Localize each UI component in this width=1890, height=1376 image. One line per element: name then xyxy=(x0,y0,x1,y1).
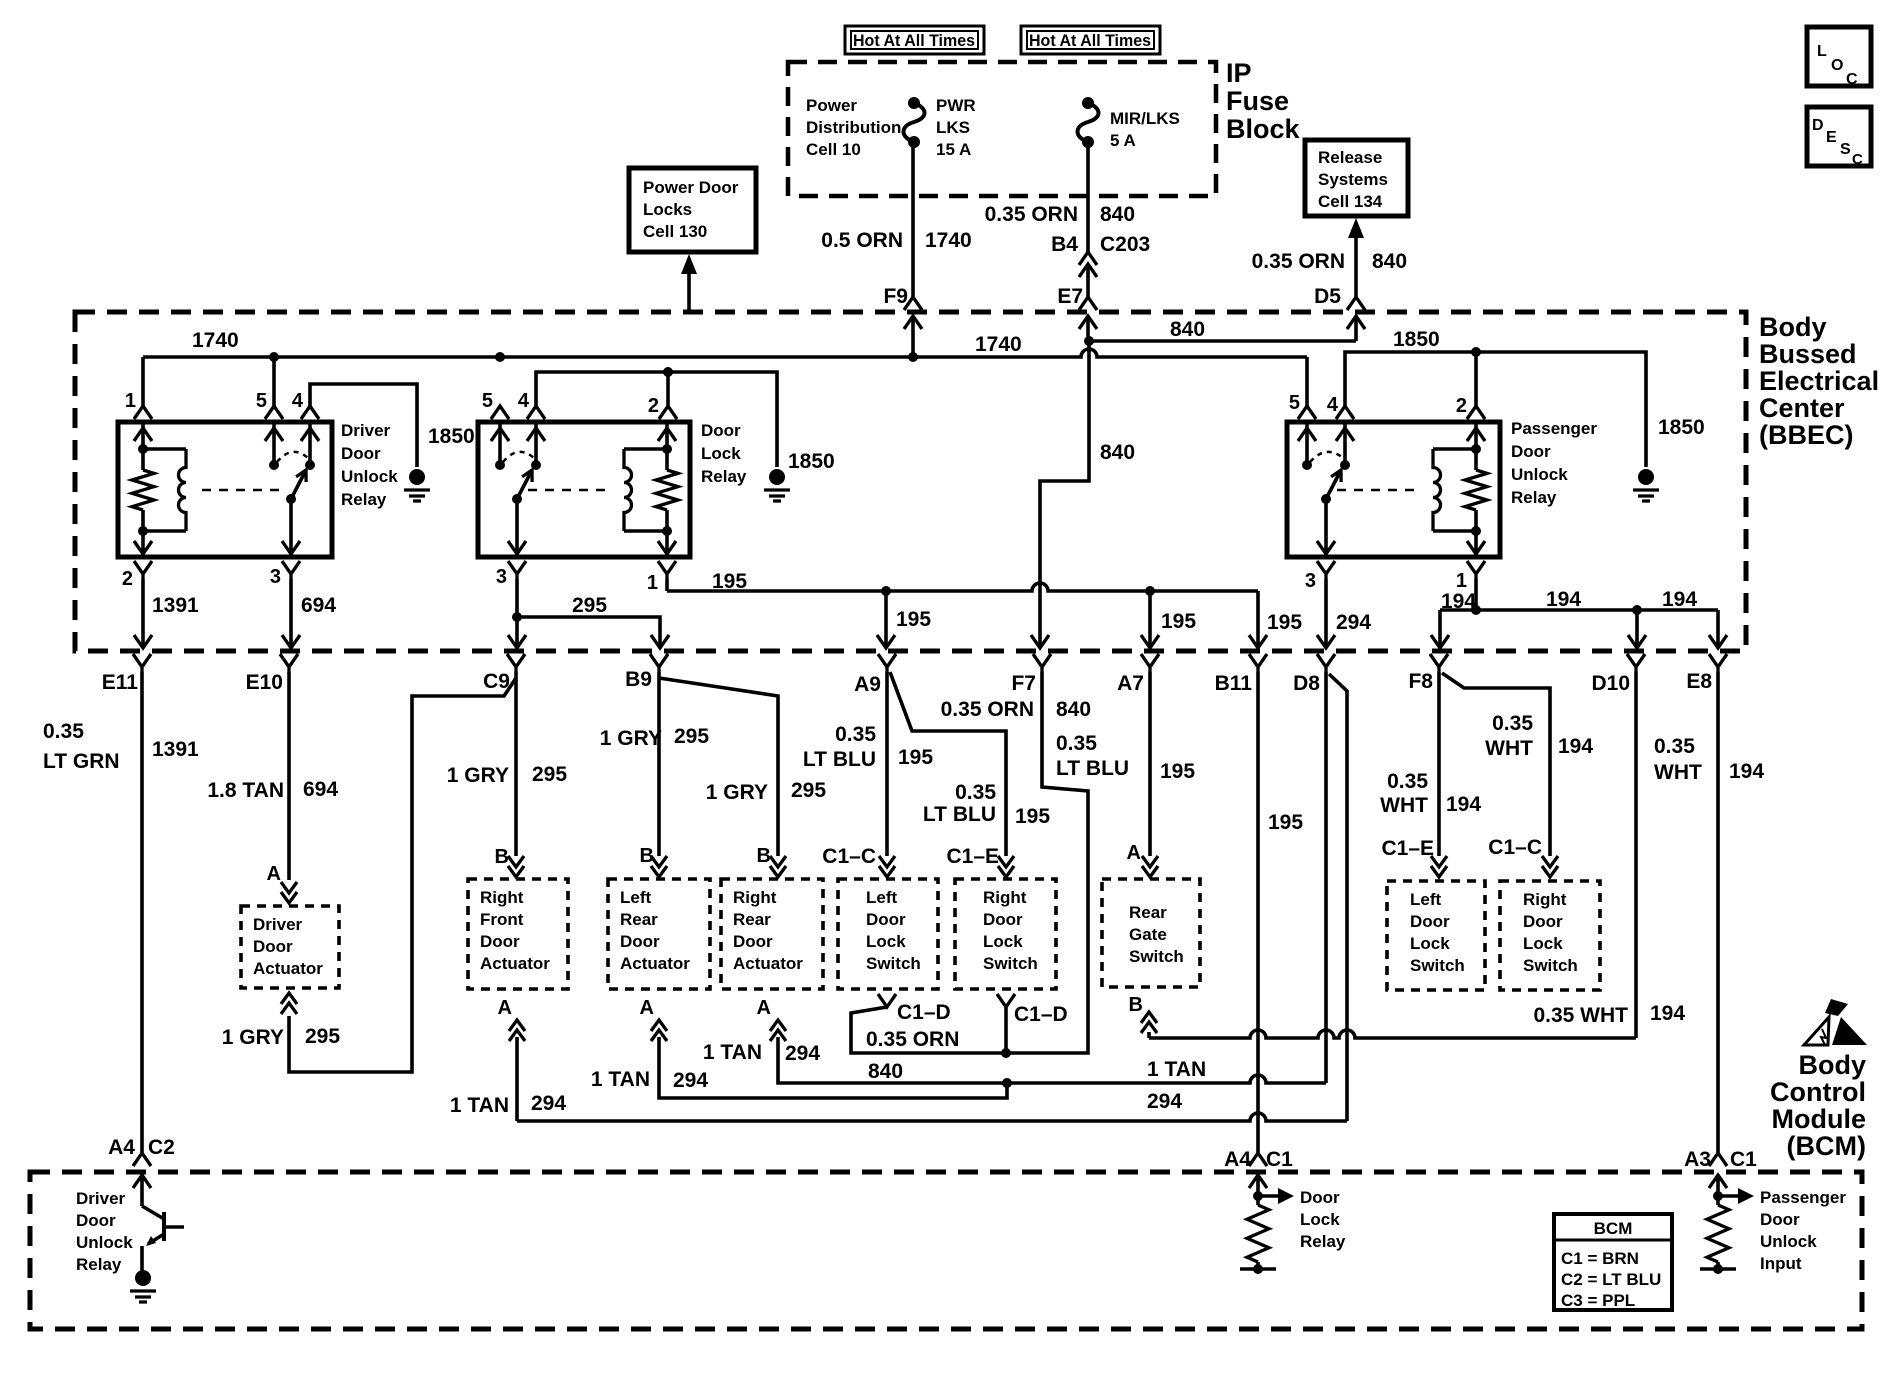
relay2 pin5 top connector xyxy=(491,406,509,419)
relay1 coil+resistor xyxy=(132,422,186,557)
connector B11 at BBEC bottom edge xyxy=(1249,654,1267,672)
connector C1-E left door lock switch 2 xyxy=(1431,856,1447,877)
svg-text:694: 694 xyxy=(303,778,338,801)
wire relay2 pin2 riser xyxy=(666,372,670,406)
wire 194 D10 to Rear Gate Switch pin B xyxy=(1634,672,1638,1038)
svg-text:C2: C2 xyxy=(148,1136,175,1159)
connector A3/C1 at BCM edge xyxy=(1709,1153,1727,1166)
svg-text:Door: Door xyxy=(701,421,741,440)
svg-text:Switch: Switch xyxy=(1523,956,1578,975)
svg-text:Driver: Driver xyxy=(253,915,303,934)
svg-text:F9: F9 xyxy=(883,285,908,308)
svg-text:0.35: 0.35 xyxy=(1387,770,1428,793)
connector C1-E right door lock switch xyxy=(998,856,1014,877)
svg-text:B11: B11 xyxy=(1215,672,1253,695)
svg-text:WHT: WHT xyxy=(1380,794,1428,817)
svg-text:B4: B4 xyxy=(1051,233,1078,256)
svg-text:840: 840 xyxy=(1372,250,1407,273)
svg-text:Hot At All Times: Hot At All Times xyxy=(853,31,975,50)
wire 295 B9 to Left Rear Door Actuator pin B xyxy=(657,672,661,856)
wire relay1 pin5 riser xyxy=(272,357,276,406)
svg-text:Actuator: Actuator xyxy=(253,959,323,978)
svg-text:Locks: Locks xyxy=(643,200,692,219)
node 840 at right C1-D xyxy=(1001,1048,1011,1058)
svg-text:840: 840 xyxy=(1100,203,1135,226)
svg-text:295: 295 xyxy=(674,725,709,748)
svg-text:1850: 1850 xyxy=(788,450,835,473)
svg-text:Systems: Systems xyxy=(1318,170,1388,189)
component Right Front Door Actuator xyxy=(468,879,568,989)
svg-text:Actuator: Actuator xyxy=(480,954,550,973)
node 194 at D10 xyxy=(1632,605,1642,615)
wire 195 A9 branch to Right Door Lock Switch pin C1-E xyxy=(890,672,1006,856)
node 195 at A9 xyxy=(881,586,891,596)
wire/arrow up to Power Door Locks box xyxy=(687,258,691,312)
connector E10 at BBEC bottom edge xyxy=(280,654,298,672)
node 1850/relay3 pin2 xyxy=(1471,347,1481,357)
ground 1850 (relay2) xyxy=(769,469,785,485)
wire 195 A9 to Left Door Lock Switch pin C1-C xyxy=(885,672,889,856)
wire fuse PWR LKS to F9 xyxy=(911,142,915,297)
svg-text:Door: Door xyxy=(1523,912,1563,931)
svg-text:3: 3 xyxy=(1305,570,1316,592)
svg-text:195: 195 xyxy=(1161,610,1196,633)
wire 295 B9 branch to Right Rear Door Actuator pin B xyxy=(659,678,778,856)
connector F9 at BBEC top edge xyxy=(904,297,922,310)
svg-text:B: B xyxy=(757,845,771,867)
ground 1850 (relay1) xyxy=(409,469,425,485)
svg-text:Left: Left xyxy=(866,888,898,907)
Hot At All Times callout box (right) xyxy=(1021,26,1160,54)
svg-text:Unlock: Unlock xyxy=(1760,1232,1817,1251)
svg-text:Actuator: Actuator xyxy=(733,954,803,973)
svg-text:1 TAN: 1 TAN xyxy=(591,1068,650,1091)
svg-text:Door: Door xyxy=(620,932,660,951)
Body Bussed Electrical Center dashed box xyxy=(75,312,1746,651)
BCM connector legend box xyxy=(1554,1214,1672,1310)
svg-text:Cell 134: Cell 134 xyxy=(1318,192,1383,211)
connector driver actuator bottom xyxy=(281,993,297,1014)
relay1 pin3 bottom connector xyxy=(282,561,300,579)
svg-text:1391: 1391 xyxy=(152,738,199,761)
svg-text:0.35 WHT: 0.35 WHT xyxy=(1533,1004,1628,1027)
svg-text:Module: Module xyxy=(1772,1104,1867,1134)
svg-text:2: 2 xyxy=(122,568,133,590)
wire 194 F8 to Left Door Lock Switch pin C1-E xyxy=(1437,672,1441,856)
svg-text:1 TAN: 1 TAN xyxy=(703,1041,762,1064)
svg-text:Body: Body xyxy=(1799,1050,1867,1080)
Power Door Locks Cell 130 box xyxy=(629,168,756,252)
svg-text:294: 294 xyxy=(1336,611,1371,634)
connector C9 at BBEC bottom edge xyxy=(507,654,525,672)
svg-text:Relay: Relay xyxy=(1511,488,1557,507)
svg-text:Right: Right xyxy=(1523,890,1567,909)
connector D10 at BBEC bottom edge xyxy=(1627,654,1645,672)
ground (BCM driver relay) xyxy=(135,1270,151,1286)
svg-text:194: 194 xyxy=(1650,1002,1685,1025)
wire 195 relay2 pin1 bus to A9/A7/B11 xyxy=(665,579,669,591)
wire 294 left rear actuator branch xyxy=(659,1037,1007,1098)
svg-text:Right: Right xyxy=(983,888,1027,907)
component Rear Gate Switch xyxy=(1102,879,1200,987)
svg-text:294: 294 xyxy=(673,1069,708,1092)
DESC legend box (top right) xyxy=(1807,107,1871,168)
connector left rear actuator bottom pin A xyxy=(651,1020,667,1041)
svg-text:Power Door: Power Door xyxy=(643,178,739,197)
svg-text:C1–E: C1–E xyxy=(946,845,999,868)
relay3 coil+resistor xyxy=(1433,422,1487,557)
wire 1391 relay1 pin2 to E11 xyxy=(141,579,145,645)
svg-text:195: 195 xyxy=(898,746,933,769)
wire/arrow D5 up to Release Systems box xyxy=(1354,224,1358,297)
svg-text:D8: D8 xyxy=(1293,672,1320,695)
transistor Driver Door Unlock Relay (BCM) xyxy=(142,1175,184,1271)
svg-text:Rear: Rear xyxy=(620,910,658,929)
svg-text:A: A xyxy=(757,997,771,1019)
svg-text:1850: 1850 xyxy=(428,425,475,448)
svg-text:Release: Release xyxy=(1318,148,1382,167)
svg-text:F8: F8 xyxy=(1408,670,1433,693)
svg-text:LT BLU: LT BLU xyxy=(803,748,876,771)
LOC legend box (top right) xyxy=(1807,27,1871,88)
node 194 at pin1 xyxy=(1471,605,1481,615)
svg-text:Driver: Driver xyxy=(76,1189,126,1208)
svg-text:Lock: Lock xyxy=(701,444,741,463)
node 294 junction xyxy=(1002,1078,1012,1088)
svg-text:195: 195 xyxy=(1267,611,1302,634)
connector A4/C2 at BCM edge xyxy=(133,1153,151,1166)
svg-text:E11: E11 xyxy=(102,671,139,694)
svg-text:E: E xyxy=(1826,129,1837,146)
svg-text:LT BLU: LT BLU xyxy=(923,803,996,826)
relay3 pin5 top connector xyxy=(1298,406,1316,419)
svg-text:195: 195 xyxy=(712,570,747,593)
connector F7 at BBEC bottom edge xyxy=(1033,654,1051,672)
svg-text:C2 = LT BLU: C2 = LT BLU xyxy=(1561,1270,1661,1289)
svg-text:A7: A7 xyxy=(1117,672,1144,695)
svg-text:Hot At All Times: Hot At All Times xyxy=(1029,31,1151,50)
connector right front actuator bottom pin A xyxy=(509,1020,525,1041)
svg-text:0.35: 0.35 xyxy=(955,781,996,804)
wire 295 C9 to Right Front Door Actuator pin B xyxy=(514,672,518,856)
svg-text:D: D xyxy=(1812,117,1824,134)
svg-text:C: C xyxy=(1852,151,1863,168)
svg-text:5: 5 xyxy=(482,390,493,412)
svg-text:Front: Front xyxy=(480,910,524,929)
svg-text:Door: Door xyxy=(480,932,520,951)
wire 1850 bus relay3 xyxy=(1345,352,1646,467)
wire relay3 pin2 riser xyxy=(1474,352,1478,406)
svg-text:LT BLU: LT BLU xyxy=(1056,757,1129,780)
svg-text:E8: E8 xyxy=(1686,670,1712,693)
svg-text:A4: A4 xyxy=(1224,1148,1251,1171)
svg-text:(BCM): (BCM) xyxy=(1787,1131,1866,1161)
svg-text:C203: C203 xyxy=(1100,233,1150,256)
svg-text:Lock: Lock xyxy=(1410,934,1450,953)
svg-text:194: 194 xyxy=(1558,735,1593,758)
component Driver Door Actuator xyxy=(241,906,339,988)
relay1 pin5 top connector xyxy=(265,406,283,419)
svg-text:1740: 1740 xyxy=(975,333,1022,356)
wire 195 A7 to Rear Gate Switch pin A xyxy=(1148,672,1152,856)
svg-text:2: 2 xyxy=(1456,395,1467,417)
wire 840 F7 to door lock switches C1-D xyxy=(1006,672,1088,1053)
svg-text:C1–C: C1–C xyxy=(822,845,876,868)
relay1 linkage dashed xyxy=(202,489,284,492)
connector B9 at BBEC bottom edge xyxy=(650,654,668,672)
svg-text:0.35 ORN: 0.35 ORN xyxy=(1252,250,1345,273)
connector A4/C1 at BCM edge xyxy=(1249,1153,1267,1166)
svg-text:C1–D: C1–D xyxy=(897,1001,951,1024)
svg-text:840: 840 xyxy=(868,1060,903,1083)
svg-text:A: A xyxy=(498,997,512,1019)
svg-text:Relay: Relay xyxy=(701,467,747,486)
relay2 linkage dashed xyxy=(528,489,610,492)
wire 694 relay1 pin3 to E10 xyxy=(289,579,293,645)
resistor Door Lock Relay input (BCM) xyxy=(1240,1175,1294,1274)
svg-text:E7: E7 xyxy=(1057,285,1083,308)
svg-text:194: 194 xyxy=(1729,760,1764,783)
svg-text:1 TAN: 1 TAN xyxy=(1147,1058,1206,1081)
svg-text:5 A: 5 A xyxy=(1110,131,1136,150)
svg-text:2: 2 xyxy=(648,395,659,417)
svg-text:C1: C1 xyxy=(1730,1148,1757,1171)
svg-text:Distribution: Distribution xyxy=(806,118,901,137)
relay2 pin1 bottom connector xyxy=(658,561,676,579)
node 1740/relay1 pin5 xyxy=(269,352,279,362)
Hot At All Times callout box (left) xyxy=(845,26,984,54)
svg-text:295: 295 xyxy=(532,763,567,786)
svg-text:Door: Door xyxy=(76,1211,116,1230)
svg-text:195: 195 xyxy=(1160,760,1195,783)
svg-text:Switch: Switch xyxy=(866,954,921,973)
svg-text:C9: C9 xyxy=(483,670,510,693)
wire 194 relay3 pin1 bus to F8/D10/E8 xyxy=(1474,579,1478,610)
svg-text:Switch: Switch xyxy=(1129,947,1184,966)
svg-text:Lock: Lock xyxy=(866,932,906,951)
relay3 pin2 top connector xyxy=(1467,406,1485,419)
svg-text:295: 295 xyxy=(572,594,607,617)
svg-text:295: 295 xyxy=(305,1025,340,1048)
wire 194 E8 to BCM A3/C1 xyxy=(1716,672,1720,1153)
svg-text:Left: Left xyxy=(1410,890,1442,909)
svg-text:Driver: Driver xyxy=(341,421,391,440)
svg-text:Rear: Rear xyxy=(1129,903,1167,922)
component Left Door Lock Switch (2) xyxy=(1387,881,1485,990)
svg-text:Control: Control xyxy=(1770,1077,1866,1107)
svg-text:294: 294 xyxy=(531,1092,566,1115)
svg-text:Cell 130: Cell 130 xyxy=(643,222,707,241)
node 1850/relay2 pin2 xyxy=(663,367,673,377)
relay Door Lock Relay (box) xyxy=(478,422,690,557)
svg-text:Center: Center xyxy=(1759,393,1845,423)
svg-text:Left: Left xyxy=(620,888,652,907)
wire 295 C9 branch to Driver Door Actuator bottom xyxy=(289,678,516,1072)
svg-text:Lock: Lock xyxy=(983,932,1023,951)
node 1740/relay2 pin5 xyxy=(495,352,505,362)
svg-text:Door: Door xyxy=(983,910,1023,929)
svg-text:A: A xyxy=(1127,842,1141,864)
svg-text:4: 4 xyxy=(518,390,530,412)
wire 294 relay3 pin3 to D8 xyxy=(1324,579,1328,645)
svg-text:A3: A3 xyxy=(1684,1148,1711,1171)
Release Systems Cell 134 box xyxy=(1305,140,1408,216)
svg-text:1 GRY: 1 GRY xyxy=(706,781,768,804)
svg-text:IP: IP xyxy=(1226,58,1252,88)
svg-text:Relay: Relay xyxy=(1300,1232,1346,1251)
connector A7 at BBEC bottom edge xyxy=(1141,654,1159,672)
svg-text:L: L xyxy=(1817,43,1827,60)
connector B right front actuator xyxy=(508,856,524,877)
svg-text:195: 195 xyxy=(896,608,931,631)
svg-text:Door: Door xyxy=(866,910,906,929)
wire 294 right rear actuator branch xyxy=(778,1037,1007,1083)
svg-text:1: 1 xyxy=(1456,570,1467,592)
svg-text:A: A xyxy=(267,863,281,885)
svg-text:E10: E10 xyxy=(246,671,283,694)
svg-text:195: 195 xyxy=(1015,805,1050,828)
connector C1-C left door lock switch xyxy=(879,856,895,877)
svg-text:Door: Door xyxy=(341,444,381,463)
svg-text:Passenger: Passenger xyxy=(1760,1188,1846,1207)
svg-text:0.35: 0.35 xyxy=(1492,712,1533,735)
svg-text:C3 = PPL: C3 = PPL xyxy=(1561,1291,1635,1310)
relay2 pin2 top connector xyxy=(659,406,677,419)
svg-text:Gate: Gate xyxy=(1129,925,1167,944)
svg-text:PWR: PWR xyxy=(936,96,976,115)
svg-text:194: 194 xyxy=(1446,793,1481,816)
svg-text:Right: Right xyxy=(733,888,777,907)
svg-text:840: 840 xyxy=(1100,441,1135,464)
svg-text:4: 4 xyxy=(292,390,304,412)
svg-text:3: 3 xyxy=(496,566,507,588)
relay3 pin3 bottom connector xyxy=(1317,561,1335,579)
svg-text:Relay: Relay xyxy=(76,1255,122,1274)
relay1 switch xyxy=(265,422,319,557)
IP Fuse Block dashed box xyxy=(788,62,1216,196)
svg-text:5: 5 xyxy=(256,390,267,412)
connector A rear gate switch xyxy=(1142,856,1158,877)
connector E8 at BBEC bottom edge xyxy=(1709,654,1727,672)
svg-text:294: 294 xyxy=(1147,1090,1182,1113)
svg-text:Fuse: Fuse xyxy=(1226,86,1289,116)
relay3 switch xyxy=(1298,422,1354,557)
svg-text:0.35: 0.35 xyxy=(1056,732,1097,755)
svg-text:194: 194 xyxy=(1546,588,1581,611)
component Right Rear Door Actuator xyxy=(721,879,823,989)
connector C1-C right door lock switch 2 xyxy=(1542,856,1558,877)
wire 694 E10 to Driver Door Actuator pin A xyxy=(287,672,291,880)
wire 1740 bus xyxy=(143,349,1307,357)
fuse MIR/LKS 5A xyxy=(1078,97,1099,148)
svg-text:Switch: Switch xyxy=(983,954,1038,973)
component Right Door Lock Switch (2) xyxy=(1500,881,1600,990)
connector A driver actuator xyxy=(281,882,297,903)
svg-text:Unlock: Unlock xyxy=(341,467,398,486)
wire relay2 pin4/pin2 to ground 1850 xyxy=(536,372,777,467)
svg-text:694: 694 xyxy=(301,594,336,617)
wire 840 drop to F7 arrow xyxy=(1031,635,1049,648)
svg-text:A4: A4 xyxy=(108,1136,135,1159)
svg-text:Rear: Rear xyxy=(733,910,771,929)
wire 294 D8 to actuator bus xyxy=(1324,672,1328,1083)
svg-text:4: 4 xyxy=(1327,394,1339,416)
svg-text:C: C xyxy=(1846,71,1858,88)
Body Control Module dashed box xyxy=(30,1172,1862,1329)
svg-text:Door: Door xyxy=(1410,912,1450,931)
svg-text:Unlock: Unlock xyxy=(1511,465,1568,484)
svg-text:Door: Door xyxy=(733,932,773,951)
wire 195 B11 to BCM A4/C1 xyxy=(1256,672,1260,1153)
svg-text:0.35: 0.35 xyxy=(1654,735,1695,758)
svg-text:195: 195 xyxy=(1268,811,1303,834)
svg-text:Door: Door xyxy=(1300,1188,1340,1207)
node 840 at E7 xyxy=(1084,336,1094,346)
svg-text:Door: Door xyxy=(253,937,293,956)
svg-text:5: 5 xyxy=(1289,392,1300,414)
svg-text:Block: Block xyxy=(1226,114,1301,144)
relay3 pin4 top connector xyxy=(1336,406,1354,419)
svg-text:S: S xyxy=(1840,141,1851,158)
svg-text:WHT: WHT xyxy=(1654,761,1702,784)
svg-text:194: 194 xyxy=(1662,588,1697,611)
svg-text:Cell 10: Cell 10 xyxy=(806,140,861,159)
svg-text:Power: Power xyxy=(806,96,857,115)
node 1740/F9 xyxy=(908,352,918,362)
svg-text:WHT: WHT xyxy=(1485,737,1533,760)
connector A9 at BBEC bottom edge xyxy=(878,654,896,672)
relay2 switch xyxy=(491,422,545,557)
relay1 pin4 top connector xyxy=(301,406,319,419)
wire right door lock switch C1-D drop xyxy=(1004,1007,1008,1053)
svg-text:840: 840 xyxy=(1170,318,1205,341)
svg-text:MIR/LKS: MIR/LKS xyxy=(1110,109,1180,128)
svg-text:Electrical: Electrical xyxy=(1759,366,1879,396)
wire 294 right front actuator branch xyxy=(515,1037,519,1121)
connector C1-D right door lock switch xyxy=(997,994,1015,1007)
svg-text:Bussed: Bussed xyxy=(1759,339,1857,369)
node 195 at A7 xyxy=(1145,586,1155,596)
connector D8 at BBEC bottom edge xyxy=(1317,654,1335,672)
svg-text:B: B xyxy=(1129,994,1143,1016)
svg-text:C1 = BRN: C1 = BRN xyxy=(1561,1249,1639,1268)
svg-text:1 GRY: 1 GRY xyxy=(600,727,662,750)
connector E7 at BBEC top edge xyxy=(1079,297,1097,310)
ESD sensitivity symbol xyxy=(1804,999,1867,1045)
svg-text:294: 294 xyxy=(785,1042,820,1065)
svg-text:C1: C1 xyxy=(1266,1148,1293,1171)
connector D5 at BBEC top edge xyxy=(1347,297,1365,310)
svg-text:0.35: 0.35 xyxy=(835,723,876,746)
svg-text:0.35: 0.35 xyxy=(43,720,84,743)
svg-text:0.35 ORN: 0.35 ORN xyxy=(985,203,1078,226)
svg-text:1740: 1740 xyxy=(925,229,972,252)
relay Driver Door Unlock Relay (box) xyxy=(118,422,332,557)
wire 194 F8 branch to Right Door Lock Switch pin C1-C xyxy=(1442,673,1550,856)
relay2 coil+resistor xyxy=(624,422,678,557)
connector B4/C203 inline xyxy=(1079,252,1097,265)
svg-text:0.35 ORN: 0.35 ORN xyxy=(941,698,1034,721)
wire 840 E7 branch to D5 xyxy=(1089,339,1356,343)
svg-text:194: 194 xyxy=(1441,590,1476,613)
relay3 pin1 bottom connector xyxy=(1467,561,1485,579)
svg-text:1 GRY: 1 GRY xyxy=(222,1026,284,1049)
svg-text:O: O xyxy=(1831,57,1843,74)
relay Passenger Door Unlock Relay (box) xyxy=(1287,422,1500,557)
svg-text:1 TAN: 1 TAN xyxy=(450,1094,509,1117)
svg-text:C1–D: C1–D xyxy=(1014,1003,1068,1026)
svg-text:1391: 1391 xyxy=(152,594,199,617)
